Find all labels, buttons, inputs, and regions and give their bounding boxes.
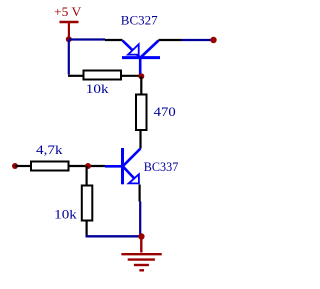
wire emitter pin stub (black) bbox=[105, 39, 123, 41]
wire R1 right pin to node B (black) bbox=[122, 75, 140, 77]
wire R4 bottom down (black) bbox=[85, 221, 87, 237]
svg-text:BC337: BC337 bbox=[144, 159, 179, 174]
wire emitter to node C (navy) bbox=[139, 202, 141, 236]
wire base pin stub (blue) bbox=[105, 165, 122, 168]
node C junction dot bbox=[138, 233, 144, 239]
base bar bbox=[122, 56, 160, 59]
wire +5V dot down (navy vertical) bbox=[68, 40, 70, 75]
node A junction dot bbox=[85, 163, 91, 169]
transistor Q1 BC327 (PNP) bbox=[122, 41, 160, 76]
transistor Q2 BC337 (NPN) bbox=[123, 148, 141, 184]
wire node C to ground (dark red) bbox=[140, 239, 142, 253]
+5V rail bar bbox=[60, 21, 79, 24]
collector lead diagonal bbox=[141, 41, 159, 58]
base bar bbox=[121, 148, 124, 184]
resistor R2 470 bbox=[136, 95, 147, 131]
svg-text:10k: 10k bbox=[86, 81, 109, 96]
emitter lead diagonal bbox=[123, 167, 139, 184]
resistor R3 4,7k bbox=[31, 162, 69, 171]
wire R3 to node A (black) bbox=[69, 165, 105, 167]
resistor R1 10k (base resistor) bbox=[84, 71, 122, 80]
svg-text:470: 470 bbox=[154, 104, 176, 119]
emitter arrow (NPN, away from base) bbox=[129, 174, 139, 183]
svg-text:10k: 10k bbox=[54, 206, 77, 221]
ground symbol bbox=[121, 254, 161, 270]
wire collector pin stub (black) bbox=[159, 39, 182, 41]
emitter arrow (PNP, into base) bbox=[128, 44, 139, 54]
emitter lead diagonal bbox=[123, 41, 141, 58]
wire emitter pin stub (black) bbox=[139, 185, 141, 202]
wire node B down to R2 (black) bbox=[140, 76, 142, 94]
wire R2 bottom to BC337 collector (black) bbox=[139, 130, 141, 149]
svg-text:BC327: BC327 bbox=[121, 13, 158, 28]
svg-text:+5 V: +5 V bbox=[54, 4, 82, 19]
node right terminal dot bbox=[210, 37, 216, 43]
wire node A down to R4 (black) bbox=[85, 166, 87, 185]
wire terminal to R3 (black) bbox=[15, 165, 31, 167]
wire bottom horizontal to node C (navy) bbox=[86, 235, 141, 237]
node left input terminal dot bbox=[12, 163, 18, 169]
collector lead diagonal bbox=[123, 149, 141, 167]
base lead vertical bbox=[139, 58, 142, 75]
wire to right terminal (navy) bbox=[181, 39, 211, 41]
node B junction dot bbox=[138, 73, 144, 79]
node +5V junction dot bbox=[66, 36, 72, 42]
svg-text:4,7k: 4,7k bbox=[36, 142, 63, 157]
resistor R4 10k (pulldown) bbox=[82, 186, 93, 221]
+5V stem wire bbox=[68, 22, 70, 38]
wire to R1 left pin (black) bbox=[68, 75, 83, 77]
wire +5V dot to BC327 emitter (navy horizontal) bbox=[69, 38, 105, 40]
